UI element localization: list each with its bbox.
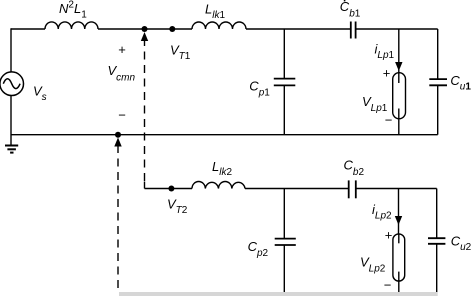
svg-text:−: − [384,278,392,293]
arrowhead iLp1 [395,62,402,71]
wire Vcmn dashed bottom probe [117,145,119,288]
wire lamp2 branch top [398,189,400,234]
wire Cu2 branch top [436,189,438,239]
wire Cu1 branch bottom [437,85,439,134]
wire lamp1 branch top [398,29,400,73]
capacitor Cb2 [349,180,356,198]
wire Cu2 branch bottom [436,244,438,293]
svg-text:+: + [385,228,393,243]
source Vs [0,72,24,96]
ground [5,146,18,153]
svg-text:+: + [383,66,391,81]
lamp VLp2 [393,234,405,281]
inductor Llk2 [192,182,245,189]
arrowhead Vcmn bottom [114,138,121,147]
wire Cp1 branch bottom [283,85,285,134]
arrowhead Vcmn top [141,32,148,41]
inductor Llk1 [192,22,246,29]
capacitor Cu2 [428,238,445,244]
wire left vertical bottom [10,96,12,146]
wire Cu1 branch top [437,29,439,79]
node VT1 [169,26,175,32]
wire top rail right segment [356,28,438,30]
capacitor Cb1 [351,22,356,39]
wire bottom rail [11,134,438,136]
wire lamp1 branch bottom [398,119,400,135]
wire top rail to Cb1 [246,28,351,30]
wire Cp1 branch top [283,29,285,79]
wire rail2 bottom (faded) [119,292,438,296]
wire rail2 right segment [356,188,437,190]
node bottom rail junction [115,132,121,138]
svg-text:−: − [118,108,126,123]
arrowhead iLp2 [395,216,402,225]
wire top rail mid segment [98,28,192,30]
wire lamp2 branch bottom [398,281,400,293]
wire left vertical top [10,28,12,72]
node top rail junction [142,26,148,32]
wire rail2 left segment [145,188,193,190]
wire crop tick above Cb1 [344,0,346,1]
capacitor Cu1 [429,79,447,85]
inductor N2L1 [45,22,98,29]
wire top rail left segment [11,28,45,30]
wire Cp2 branch top [283,189,285,239]
svg-text:+: + [118,42,126,57]
wire Cp2 branch bottom [283,245,285,293]
lamp VLp1 [393,73,406,119]
svg-text:−: − [385,113,393,128]
node VT2 [168,186,174,192]
capacitor Cp2 [275,239,296,245]
capacitor Cp1 [274,79,296,86]
wire Vcmn dashed top probe [144,38,146,182]
wire rail2 to Cb2 [245,188,349,190]
